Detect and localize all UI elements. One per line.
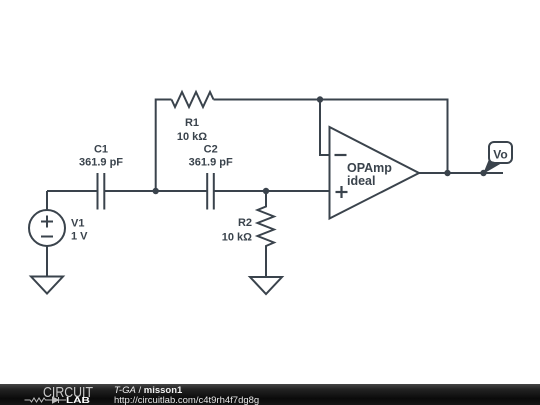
svg-text:10 kΩ: 10 kΩ [222, 232, 252, 244]
svg-text:R1: R1 [185, 117, 199, 129]
logo circuit doodle (resistor and diode) [25, 397, 67, 403]
svg-text:1 V: 1 V [71, 231, 88, 243]
svg-text:R2: R2 [238, 217, 252, 229]
wire: main net segment left (V1 corner to C1 left plate) [47, 190, 98, 192]
svg-text:C1: C1 [94, 144, 108, 156]
svg-text:10 kΩ: 10 kΩ [177, 131, 207, 143]
net flag Vo pointer wedge [483, 161, 501, 175]
op-amp non-inverting input plus symbol [336, 186, 348, 198]
svg-text:C2: C2 [204, 144, 218, 156]
junction: node B (C2/R2/op-amp input) [263, 188, 269, 194]
capacitor C2 [207, 173, 214, 210]
ground (below V1) [31, 277, 63, 294]
capacitor C1 [98, 173, 105, 210]
svg-text:http://circuitlab.com/c4t9rh4f: http://circuitlab.com/c4t9rh4f7dg8g [114, 395, 259, 405]
svg-text:Vo: Vo [493, 148, 507, 162]
wire: feedback branch vertical from node A up to R1 [156, 100, 172, 192]
svg-text:361.9 pF: 361.9 pF [189, 157, 233, 169]
junction: node A (C1/C2/feedback) [153, 188, 159, 194]
op-amp U1 triangle [330, 127, 420, 219]
net flag Vo box [489, 142, 512, 163]
ground (below R2) [250, 277, 282, 294]
junction: output at feedback vertical [444, 170, 450, 176]
wire: top net from R1 to output vertical [214, 100, 448, 174]
op-amp inverting input minus symbol [335, 154, 347, 156]
resistor R1 [172, 92, 214, 107]
junction: output at Vo flag [480, 170, 486, 176]
wire: inverting input branch [320, 100, 330, 156]
footer bar [0, 384, 540, 405]
svg-text:V1: V1 [71, 218, 84, 230]
svg-text:361.9 pF: 361.9 pF [79, 157, 123, 169]
svg-text:ideal: ideal [347, 174, 376, 188]
svg-text:OPAmp: OPAmp [347, 161, 392, 175]
junction: top net at inverting branch [317, 96, 323, 102]
resistor R2 [258, 191, 275, 277]
voltage source V1 [29, 191, 65, 277]
wire: main net segment C2 to op-amp non-inverting input [214, 190, 330, 192]
wire: main net segment between C1 and C2 [104, 190, 207, 192]
svg-text:LAB: LAB [66, 395, 90, 405]
wire: output net from op-amp to Vo [419, 172, 503, 174]
